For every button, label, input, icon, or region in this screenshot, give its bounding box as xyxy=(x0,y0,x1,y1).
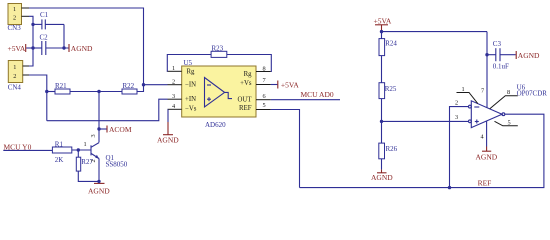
svg-text:R23: R23 xyxy=(212,45,224,53)
svg-text:+5VA: +5VA xyxy=(374,17,392,26)
svg-text:+5VA: +5VA xyxy=(8,44,26,53)
svg-text:2: 2 xyxy=(172,78,175,85)
svg-text:2: 2 xyxy=(13,73,16,80)
svg-text:R26: R26 xyxy=(386,145,398,153)
svg-text:+IN: +IN xyxy=(185,96,196,103)
svg-text:8: 8 xyxy=(263,65,266,72)
svg-text:Rg: Rg xyxy=(187,69,196,76)
svg-text:8: 8 xyxy=(507,89,510,96)
svg-text:0.1uF: 0.1uF xyxy=(493,62,509,70)
svg-text:REF: REF xyxy=(478,179,492,188)
svg-text:AGND: AGND xyxy=(518,51,540,60)
svg-text:R1: R1 xyxy=(55,141,64,149)
svg-text:6: 6 xyxy=(263,93,266,100)
svg-text:R21: R21 xyxy=(55,82,67,90)
svg-text:2K: 2K xyxy=(55,156,64,164)
svg-text:R22: R22 xyxy=(123,82,135,90)
svg-text:1: 1 xyxy=(462,86,465,93)
svg-text:1: 1 xyxy=(13,64,16,71)
svg-text:−Vs: −Vs xyxy=(185,106,197,113)
svg-text:OP07CDR: OP07CDR xyxy=(517,90,548,98)
svg-text:3: 3 xyxy=(455,114,458,121)
svg-text:7: 7 xyxy=(263,77,266,84)
svg-text:2: 2 xyxy=(90,159,97,162)
svg-text:R25: R25 xyxy=(385,85,397,93)
svg-text:+Vs: +Vs xyxy=(240,80,252,87)
svg-text:SS8050: SS8050 xyxy=(106,160,128,168)
svg-text:REF: REF xyxy=(239,105,252,112)
svg-text:U5: U5 xyxy=(184,59,193,67)
svg-text:C1: C1 xyxy=(40,11,49,19)
svg-text:MCU AD0: MCU AD0 xyxy=(301,90,334,99)
svg-text:3: 3 xyxy=(90,134,97,137)
svg-text:+5VA: +5VA xyxy=(281,81,299,90)
svg-text:C2: C2 xyxy=(40,34,49,42)
svg-text:3: 3 xyxy=(172,93,175,100)
svg-text:2: 2 xyxy=(455,100,458,107)
svg-text:ACOM: ACOM xyxy=(109,125,132,134)
svg-text:AGND: AGND xyxy=(476,153,498,162)
svg-text:AGND: AGND xyxy=(371,173,393,182)
svg-text:7: 7 xyxy=(481,88,484,95)
svg-text:1: 1 xyxy=(172,65,175,72)
svg-text:CN3: CN3 xyxy=(8,24,22,32)
svg-text:AGND: AGND xyxy=(157,135,179,144)
svg-text:5: 5 xyxy=(263,102,266,109)
svg-text:AD620: AD620 xyxy=(205,121,226,129)
svg-text:1: 1 xyxy=(13,6,16,13)
svg-text:Rg: Rg xyxy=(244,71,253,78)
svg-text:5: 5 xyxy=(508,120,511,127)
svg-text:AGND: AGND xyxy=(71,44,93,53)
svg-text:AGND: AGND xyxy=(88,186,110,195)
svg-text:1: 1 xyxy=(84,141,87,148)
svg-text:R24: R24 xyxy=(385,39,397,47)
svg-text:OUT: OUT xyxy=(238,96,253,103)
svg-text:−IN: −IN xyxy=(185,82,196,89)
svg-text:2: 2 xyxy=(13,15,16,22)
svg-text:C3: C3 xyxy=(493,40,502,48)
svg-text:CN4: CN4 xyxy=(8,84,22,92)
